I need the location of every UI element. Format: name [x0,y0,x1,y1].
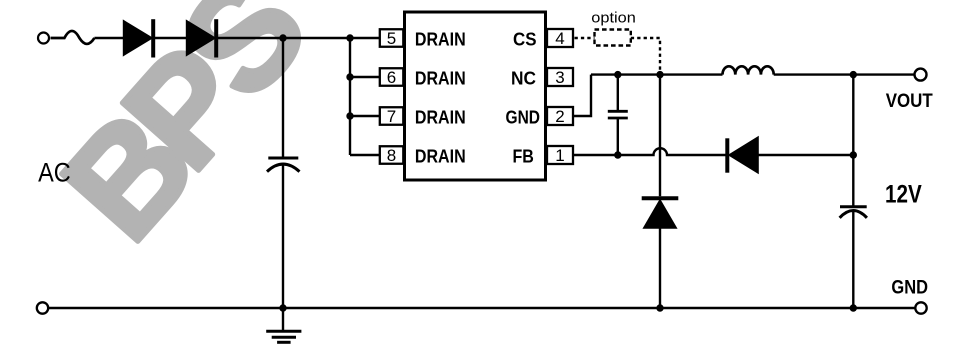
svg-text:1: 1 [555,146,564,165]
svg-text:4: 4 [555,29,564,48]
wire drain bus vertical [349,38,351,155]
ground [266,308,301,342]
node C2 top [614,71,621,78]
svg-text:DRAIN: DRAIN [415,29,466,50]
node C2 bottom on FB wire [614,151,621,158]
watermark BPS [32,0,339,270]
node bulk-cap tap [279,34,286,41]
pin 8 [380,146,404,165]
wire dotted CS to option resistor [575,37,595,39]
svg-text:NC: NC [511,68,536,89]
svg-text:FB: FB [513,146,534,167]
svg-text:VOUT: VOUT [886,90,933,112]
pin 5 [380,29,404,48]
node output cap FB [850,151,857,158]
bottom rail wire [48,307,915,309]
node bus pin6 [346,73,353,80]
node bottom rail D3 [656,304,663,311]
node bottom rail output cap [850,304,857,311]
pin 2 [547,107,573,126]
wire D3 branch vertical [659,75,661,197]
svg-text:AC: AC [38,157,71,187]
wire bulk cap branch lower [282,165,284,308]
svg-text:8: 8 [387,146,396,165]
wire inductor to VOUT [774,73,915,75]
svg-text:7: 7 [387,107,396,126]
op-amp U1 body [405,12,546,180]
node bus pin7 [346,112,353,119]
wire output cap branch upper [852,75,854,207]
svg-text:DRAIN: DRAIN [415,68,466,89]
node output rail cap branch [850,71,857,78]
diode D2 [186,19,216,57]
pin 6 [380,68,404,87]
svg-text:12V: 12V [885,181,922,208]
capacitor C3 [840,207,867,218]
svg-text:DRAIN: DRAIN [415,146,466,167]
wire bulk cap branch upper [282,38,284,158]
node bottom rail bulk cap [279,304,286,311]
wire pin2 GND to output rail [573,75,591,116]
resistor R1 option [595,30,631,46]
wire bus to pin6 [350,76,380,78]
node D3 top [656,71,663,78]
svg-text:5: 5 [387,29,396,48]
node drain bus tap [346,34,353,41]
wire dotted option resistor to output node [631,38,660,73]
svg-text:option: option [591,10,636,27]
terminal GND [915,302,926,313]
pin 4 [547,29,573,48]
wire bus to pin8 [350,154,380,156]
diode D4 [727,137,758,174]
wire bus to pin7 [350,115,380,117]
svg-text:2: 2 [555,107,564,126]
wire FB from pin1 with hop over D3 branch [573,148,727,155]
pin 1 [547,146,573,165]
svg-text:CS: CS [513,29,537,50]
capacitor C2 [608,75,628,155]
svg-text:GND: GND [891,277,928,299]
wire [94,37,123,39]
capacitor C1 bulk [267,158,300,172]
diode D3 [642,198,679,228]
terminal VOUT [915,69,927,81]
wire top rail to IC pin5 [218,37,380,39]
wire [155,37,186,39]
wire output rail to inductor [591,73,723,75]
fuse F1 [51,31,95,44]
svg-text:3: 3 [555,68,564,87]
wire D3 to bottom rail [659,228,661,308]
terminal AC neutral [37,302,48,313]
svg-text:6: 6 [387,68,396,87]
wire D4 to output cap node [758,154,853,156]
svg-text:DRAIN: DRAIN [415,107,466,128]
pin 7 [380,107,404,126]
diode D1 [123,19,153,57]
terminal AC live input [38,33,49,44]
wire output cap branch lower [852,212,854,309]
pin 3 [547,68,573,87]
inductor L1 [723,66,774,74]
svg-text:GND: GND [506,107,541,128]
